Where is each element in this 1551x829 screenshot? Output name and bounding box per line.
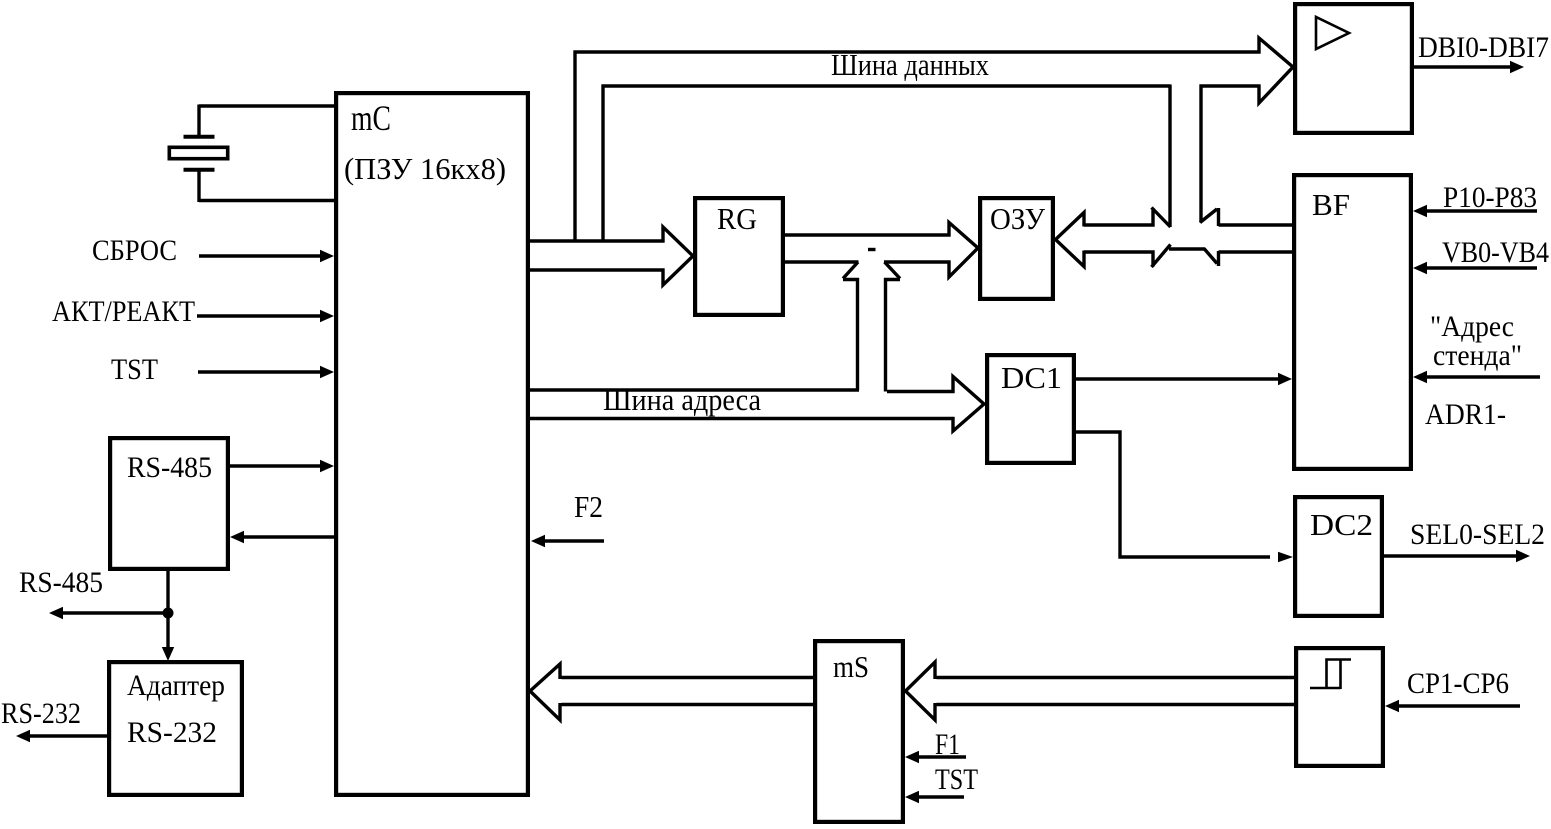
block U9 mS multiplexer bbox=[815, 641, 903, 822]
block U2 RG register bbox=[695, 198, 783, 315]
wire VB0-VB4 input bbox=[1425, 266, 1537, 269]
bus arrowhead into mS bbox=[906, 662, 936, 720]
bus address top left bbox=[528, 388, 859, 391]
wire RS-485 to mC bbox=[230, 464, 322, 467]
wire input АКТ/РЕАКТ bbox=[197, 314, 322, 317]
bus up vertical left bbox=[856, 278, 859, 390]
svg-text:RS-232: RS-232 bbox=[1, 697, 81, 730]
svg-text:RS-232: RS-232 bbox=[127, 716, 217, 749]
block U3 ОЗУ RAM bbox=[980, 198, 1053, 299]
svg-text:Адаптер: Адаптер bbox=[127, 669, 225, 702]
svg-text:RS-485: RS-485 bbox=[19, 566, 103, 599]
wire crystal bottom vertical bbox=[197, 170, 200, 202]
block U8 Schmitt trigger bbox=[1296, 648, 1383, 766]
bus mS-mC top shaft bbox=[562, 676, 814, 679]
bus RG-ОЗУ bottom right bbox=[884, 260, 951, 263]
svg-text:TST: TST bbox=[111, 353, 158, 386]
wire crystal top to mC bbox=[199, 104, 334, 107]
svg-text:Шина данных: Шина данных bbox=[831, 47, 989, 82]
bus address bottom bbox=[528, 417, 955, 420]
svg-text:ОЗУ: ОЗУ bbox=[990, 201, 1045, 236]
bus arrowhead into mC bbox=[530, 664, 560, 720]
bus mC-RG bottom shaft bbox=[528, 268, 665, 271]
amplifier triangle symbol bbox=[1316, 17, 1349, 49]
wire F2 input bbox=[543, 539, 604, 542]
wire DBI output bbox=[1414, 65, 1512, 68]
node junction dot bbox=[163, 608, 174, 619]
merge barb bottom-right bbox=[1204, 249, 1292, 267]
svg-text:RG: RG bbox=[717, 201, 757, 236]
wire CP input bbox=[1397, 704, 1520, 707]
wire RS-485 down bbox=[166, 569, 169, 613]
block U11 RS-232 adapter bbox=[109, 662, 242, 795]
merge pennant left bbox=[843, 262, 859, 280]
bus branch vertical left bbox=[573, 51, 576, 243]
wire input СБРОС bbox=[199, 254, 322, 257]
svg-text:DBI0-DBI7: DBI0-DBI7 bbox=[1418, 31, 1549, 64]
svg-text:P10-P83: P10-P83 bbox=[1443, 181, 1537, 214]
crystal X1 body bbox=[169, 147, 227, 158]
bus data bottom line left bbox=[602, 84, 1171, 87]
block U10 RS-485 interface bbox=[110, 438, 228, 569]
hysteresis symbol bbox=[1310, 660, 1351, 690]
wire RS-232 out bbox=[28, 734, 107, 737]
block U7 DC2 decoder bbox=[1295, 497, 1382, 616]
svg-text:ADR1-: ADR1- bbox=[1425, 398, 1506, 431]
crystal X1 top plate bbox=[184, 135, 215, 139]
bus drop right vertical bbox=[1199, 85, 1202, 223]
svg-text:(ПЗУ 16кх8): (ПЗУ 16кх8) bbox=[344, 151, 506, 186]
svg-text:DC2: DC2 bbox=[1310, 507, 1373, 542]
bus mC-RG top shaft bbox=[528, 239, 665, 242]
wire crystal top vertical bbox=[197, 105, 200, 137]
svg-text:SEL0-SEL2: SEL0-SEL2 bbox=[1410, 518, 1545, 551]
wire SEL output bbox=[1384, 554, 1518, 557]
crystal X1 bottom plate bbox=[184, 168, 215, 172]
block U5 BF buffer bbox=[1294, 175, 1411, 469]
bus Schmitt-mS bottom shaft bbox=[937, 703, 1295, 706]
bus Schmitt-mS top shaft bbox=[937, 676, 1295, 679]
svg-text:стенда": стенда" bbox=[1433, 339, 1522, 372]
bus mS-mC bottom shaft bbox=[562, 703, 814, 706]
bus arrowhead into DC1 bbox=[953, 377, 984, 432]
bus arrowhead into RG bbox=[663, 227, 693, 285]
wire F1 input bbox=[917, 755, 966, 758]
bus data bottom line right bbox=[1200, 84, 1261, 87]
merge pennant right bbox=[884, 262, 900, 280]
wire RS-485 out bbox=[61, 611, 168, 614]
svg-text:TST: TST bbox=[935, 763, 978, 796]
svg-text:CP1-CP6: CP1-CP6 bbox=[1407, 667, 1509, 700]
bus RG-ОЗУ top shaft bbox=[785, 233, 951, 236]
wire input TST bbox=[198, 370, 322, 373]
svg-text:VB0-VB4: VB0-VB4 bbox=[1442, 236, 1549, 269]
block U6 output buffer amplifier bbox=[1295, 4, 1412, 133]
svg-text:F2: F2 bbox=[574, 489, 603, 524]
wire DC1 to DC2 bend bbox=[1076, 432, 1270, 557]
wire mC to RS-485 bbox=[242, 535, 334, 538]
bus address top right bbox=[887, 390, 955, 393]
svg-text:RS-485: RS-485 bbox=[127, 451, 212, 484]
wire DC1-DC2 arrowhead bbox=[1278, 552, 1293, 562]
svg-text:Шина адреса: Шина адреса bbox=[603, 382, 761, 417]
bus arrowhead into buffer bbox=[1259, 38, 1293, 103]
bus arrowhead into ОЗУ right bbox=[1056, 213, 1085, 267]
wire P10-P83 input bbox=[1425, 209, 1537, 212]
wire Адрес стенда input bbox=[1425, 375, 1540, 378]
wire crystal bottom to mC bbox=[199, 199, 334, 202]
bus RG-ОЗУ bottom left bbox=[785, 260, 859, 263]
bus drop left vertical bbox=[1168, 85, 1171, 228]
block U1 mC microcontroller bbox=[336, 93, 528, 795]
svg-text:mC: mC bbox=[351, 98, 391, 138]
bus data top line bbox=[574, 50, 1261, 53]
merge barb top-right bbox=[1200, 208, 1292, 226]
merge barb bottom-left bbox=[1084, 245, 1205, 268]
bus branch vertical right bbox=[601, 85, 604, 243]
svg-text:BF: BF bbox=[1312, 187, 1350, 222]
svg-text:СБРОС: СБРОС bbox=[92, 234, 177, 267]
wire TST input bbox=[917, 795, 964, 798]
wire to adapter bbox=[166, 613, 169, 649]
bus up vertical right bbox=[884, 278, 887, 392]
wire DC1 to BF bbox=[1076, 377, 1280, 380]
svg-text:DC1: DC1 bbox=[1001, 360, 1062, 395]
merge barb top-left bbox=[1084, 208, 1171, 228]
block U4 DC1 decoder bbox=[987, 355, 1074, 463]
svg-text:АКТ/РЕАКТ: АКТ/РЕАКТ bbox=[52, 295, 195, 328]
bus arrowhead into ОЗУ bbox=[949, 223, 978, 278]
svg-text:mS: mS bbox=[833, 649, 869, 684]
merge dash bbox=[868, 248, 876, 251]
